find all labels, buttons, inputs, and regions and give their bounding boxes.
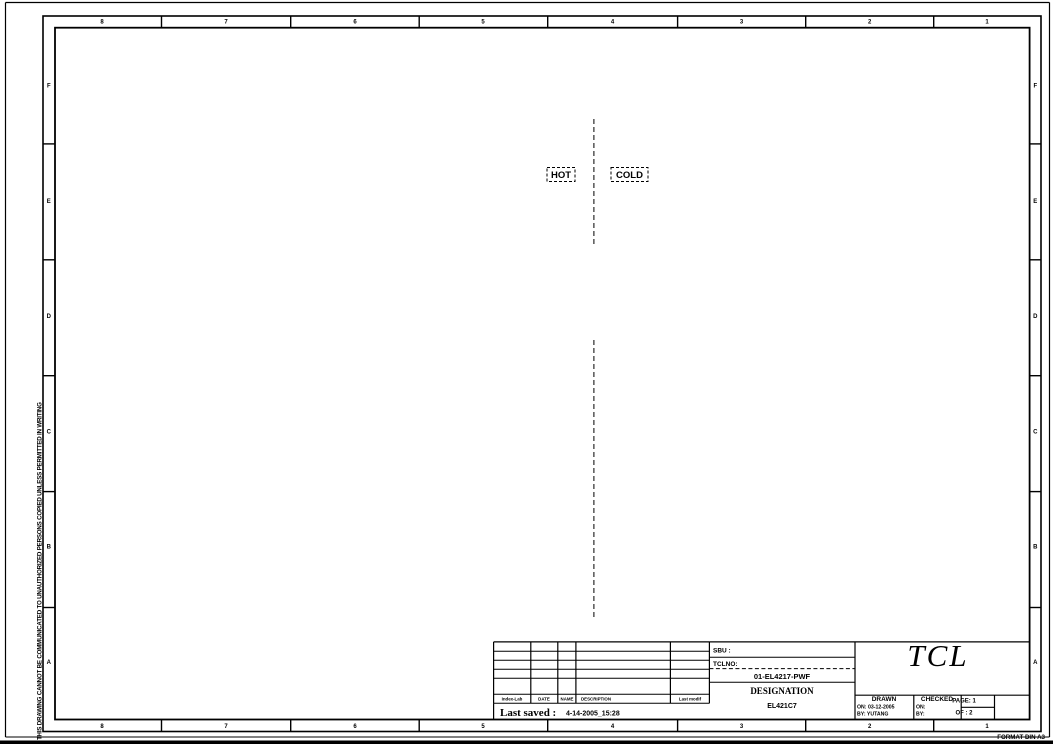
svg-text:Index-Lab: Index-Lab — [502, 697, 523, 702]
svg-text:B: B — [1033, 545, 1038, 551]
svg-text:NAME: NAME — [561, 697, 574, 702]
svg-text:BY:: BY: — [916, 712, 925, 718]
svg-text:Last modif: Last modif — [679, 697, 702, 702]
svg-text:A: A — [47, 660, 52, 666]
svg-text:01-EL4217-PWF: 01-EL4217-PWF — [754, 672, 811, 681]
svg-text:TCL: TCL — [907, 638, 968, 673]
svg-text:C: C — [47, 429, 52, 435]
svg-text:B: B — [47, 545, 52, 551]
svg-text:COLD: COLD — [616, 170, 643, 181]
svg-text:PAGE: 1: PAGE: 1 — [952, 699, 976, 705]
svg-text:D: D — [1033, 314, 1038, 320]
svg-text:SBU :: SBU : — [713, 648, 731, 655]
svg-text:THIS DRAWING CANNOT BE COMMUNI: THIS DRAWING CANNOT BE COMMUNICATED TO U… — [37, 402, 44, 740]
svg-text:FORMAT DIN A3: FORMAT DIN A3 — [997, 734, 1045, 741]
svg-text:F: F — [47, 84, 51, 90]
svg-text:DESIGNATION: DESIGNATION — [750, 686, 814, 696]
svg-text:ON:: ON: — [916, 705, 926, 711]
svg-text:EL421C7: EL421C7 — [767, 703, 797, 710]
svg-text:DESCRIPTION: DESCRIPTION — [581, 697, 611, 702]
svg-text:C: C — [1033, 429, 1038, 435]
svg-text:HOT: HOT — [551, 170, 571, 181]
svg-text:CHECKED: CHECKED — [921, 696, 953, 703]
svg-text:TCLNO:: TCLNO: — [713, 661, 738, 668]
svg-text:D: D — [47, 314, 52, 320]
svg-text:F: F — [1033, 84, 1037, 90]
svg-text:4-14-2005_15:28: 4-14-2005_15:28 — [566, 711, 620, 718]
svg-text:E: E — [1033, 199, 1037, 205]
svg-text:E: E — [47, 199, 51, 205]
svg-text:ON: 03-12-2005: ON: 03-12-2005 — [857, 705, 895, 711]
svg-text:BY: YUTANG: BY: YUTANG — [857, 712, 888, 718]
svg-text:A: A — [1033, 660, 1038, 666]
svg-text:DATE: DATE — [538, 697, 550, 702]
svg-text:OF : 2: OF : 2 — [955, 711, 973, 717]
svg-text:Last saved :: Last saved : — [500, 707, 556, 719]
svg-text:DRAWN: DRAWN — [872, 696, 897, 703]
